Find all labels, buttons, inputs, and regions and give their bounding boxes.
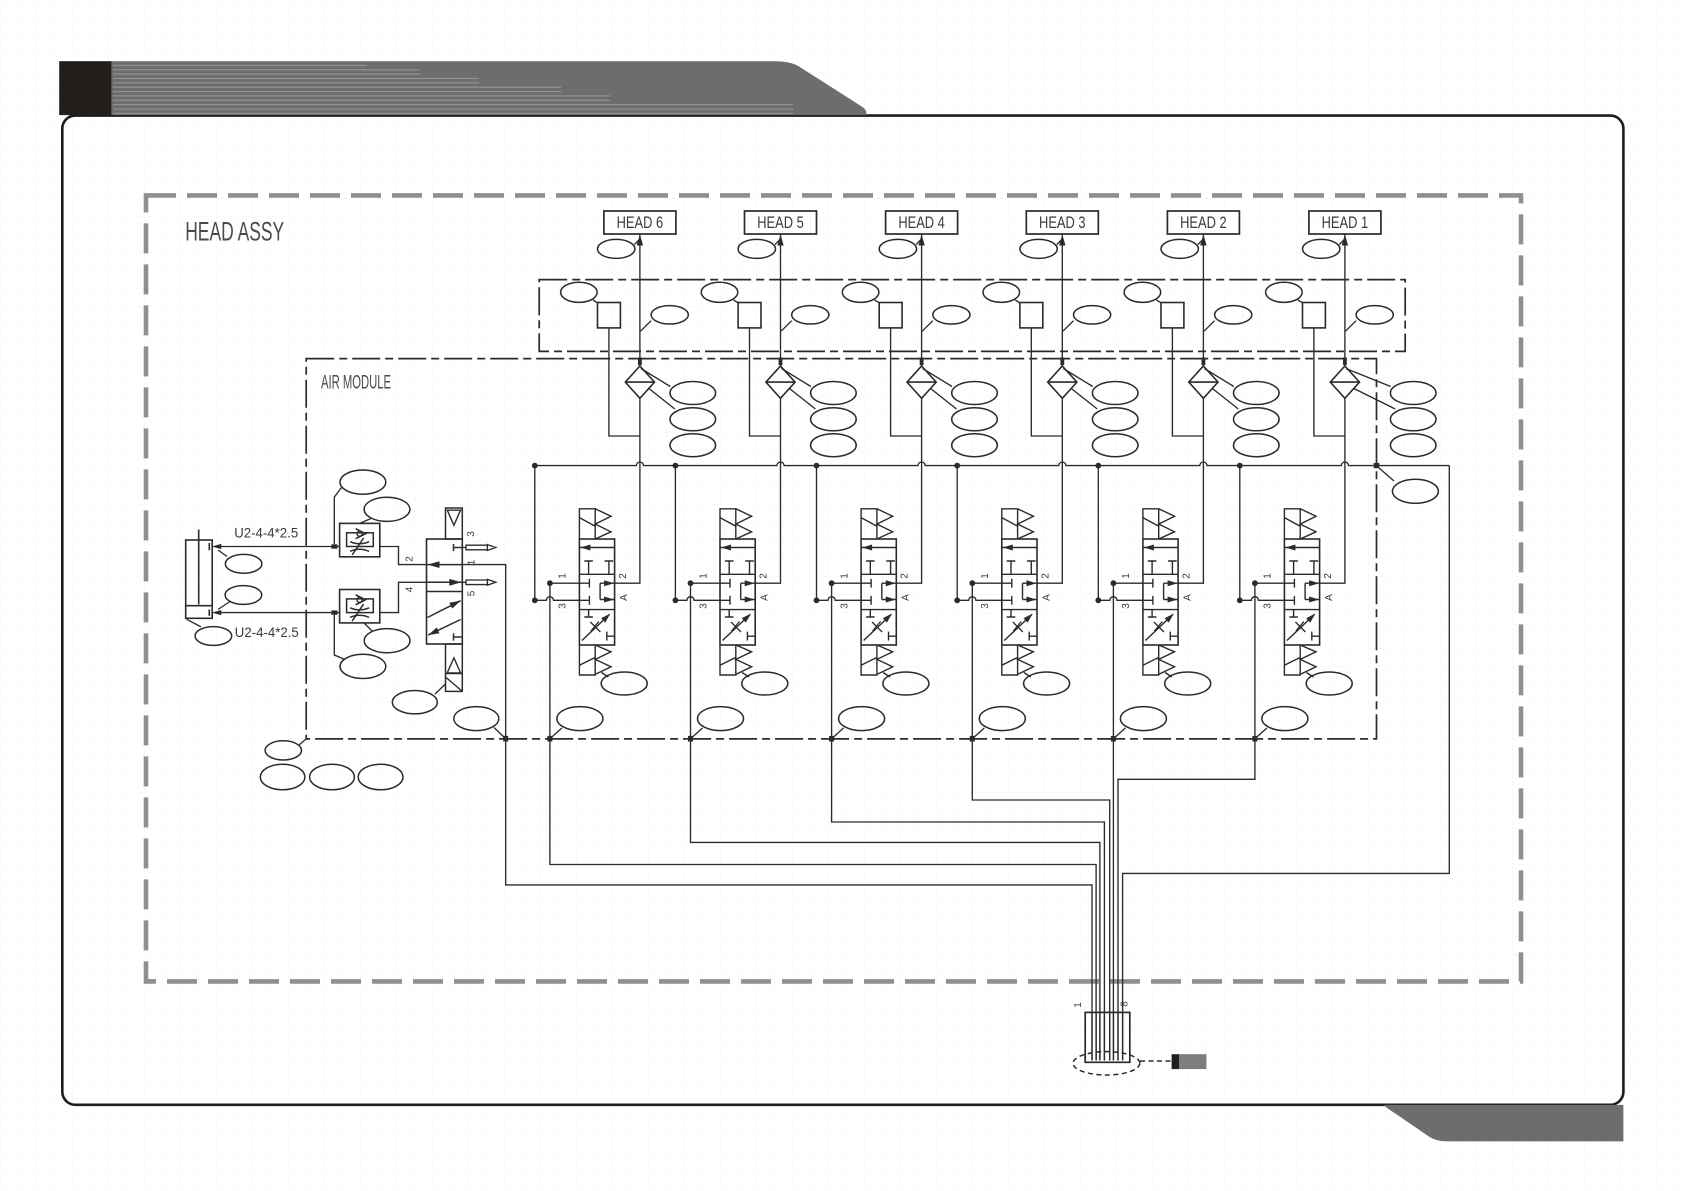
connector CN1 dashed outline ellipse <box>1073 1052 1140 1075</box>
leader V1 boundary crossing <box>1255 728 1267 739</box>
redacted ellipse stack 1a <box>1390 382 1436 405</box>
HEAD 2 box <box>1167 211 1239 234</box>
leader HEAD 1 line callout <box>1339 240 1344 245</box>
valve V1 cell1 flow line <box>1284 547 1319 549</box>
sensor S2 box <box>1161 303 1184 328</box>
redacted ellipse stack 5a <box>811 382 857 405</box>
valve V6 cell2 bracket <box>600 583 615 599</box>
callout ellipse (HEAD 2 line) <box>1161 239 1198 258</box>
valve V5 cell1 flow line <box>720 547 755 549</box>
check valve CV5 (diamond) <box>766 366 795 398</box>
valve MV crossover arrow a <box>449 601 460 609</box>
valve V2 cell3 throttle line <box>1145 615 1173 641</box>
boundary tick (V6 line at AIR MODULE top) <box>638 358 642 366</box>
wire: tube cylinder top port to flow control F1 <box>221 546 340 548</box>
leader V3 spring callout <box>1024 673 1031 678</box>
junction dot V4 port 1 <box>829 580 835 586</box>
sensor S5 box <box>738 303 761 328</box>
wire: sensor S3 to valve line <box>1031 328 1062 436</box>
junction dot V4 port 3 <box>814 597 820 603</box>
valve MV blocked port 3 (T) <box>454 544 463 551</box>
HEAD 4 box <box>886 211 958 234</box>
valve V2 cell1 blocked ports <box>1148 561 1177 574</box>
leader to cylinder top port <box>218 550 227 557</box>
svg-text:HEAD 4: HEAD 4 <box>898 213 945 232</box>
redacted ellipse stack 3b <box>1092 408 1138 431</box>
flow control valve F1 <box>340 523 380 556</box>
title banner stripes <box>113 65 793 114</box>
leader CV3 callout 1 <box>1063 369 1092 387</box>
AIR MODULE boundary (dash-dot box) <box>306 359 1376 739</box>
callout ellipse (sensor 4 right) <box>933 306 970 324</box>
valve V4 cell2 arrow a <box>886 580 896 586</box>
leader CV2 callout 2 <box>1212 389 1238 410</box>
callout ellipse (sensor 5 left) <box>701 282 738 302</box>
valve V1 cell2 arrow a <box>1309 580 1319 586</box>
flow control valve F2 <box>340 590 380 623</box>
svg-text:HEAD 2: HEAD 2 <box>1180 213 1227 232</box>
leader sensor 5 right <box>781 321 792 332</box>
valve MV cell divider <box>427 591 463 593</box>
wire: V4 port 1 rail to connector <box>832 583 1105 1060</box>
svg-text:1: 1 <box>1073 1002 1084 1008</box>
svg-text:3: 3 <box>1121 603 1132 609</box>
svg-text:3: 3 <box>980 603 991 609</box>
callout ellipse (flow control F2) <box>364 629 410 653</box>
valve MV exhaust pin port 3 <box>462 545 496 551</box>
valve V1 cell1 flow arrow <box>1285 545 1295 551</box>
wire: tube flow control F2 to valve MV port 4 <box>380 582 427 612</box>
svg-text:1: 1 <box>1121 573 1132 579</box>
valve V5 cell2 arrow b <box>745 597 755 603</box>
valve V3 cell3 throttle cross <box>1013 622 1023 633</box>
valve MV crossover arrow b <box>428 627 439 635</box>
junction dot manifold / head 4 port-3 rail <box>814 463 820 469</box>
valve V5 pilot box top <box>720 509 736 539</box>
valve V5 cell2 arrow a <box>745 580 755 586</box>
cylinder C1 port stub bottom <box>208 610 210 616</box>
arrow into cylinder top port <box>212 544 222 549</box>
wire: sensor S6 to valve line <box>609 328 640 436</box>
mating connector dark part <box>1172 1054 1180 1069</box>
leader MV supply crossing <box>494 728 506 739</box>
valve V2 cell3 throttle arrow <box>1165 614 1174 623</box>
valve MV pilot diagonal <box>446 677 463 691</box>
connector CN1 pins <box>1092 1012 1123 1060</box>
leader V5 spring callout <box>742 673 749 678</box>
valve MV exhaust pin port 5 <box>462 579 496 585</box>
leader HEAD 4 line callout <box>916 240 921 245</box>
valve V1 cell3 throttle arrow <box>1306 614 1315 623</box>
wire: V2 port 3 line <box>1098 597 1143 601</box>
redacted ellipse stack 1b <box>1390 408 1436 431</box>
valve V3 cell2 arrow b <box>1027 597 1037 603</box>
leader sensor 3 <box>1015 300 1020 303</box>
svg-text:3: 3 <box>839 603 850 609</box>
valve V4 pilot box bottom <box>861 645 877 675</box>
leader V6 spring callout <box>601 673 608 678</box>
callout ellipse (V3 boundary crossing) <box>979 707 1025 731</box>
redacted ellipse stack 5b <box>811 408 857 431</box>
redacted ellipse stack 2a <box>1234 382 1280 405</box>
arrow into HEAD 1 <box>1342 235 1348 246</box>
wire: V2 port 1 line <box>1113 582 1143 584</box>
valve V6 port 1 blocked (T) <box>579 579 589 588</box>
valve V5 cell3 throttle arrow <box>742 614 751 623</box>
callout ellipse (sensor 3 right) <box>1074 306 1111 324</box>
wire: supply line to connector pin 8 <box>1123 466 1450 1061</box>
valve V5 cell3 throttle line <box>723 615 751 641</box>
junction dot manifold / head 6 port-3 rail <box>532 463 538 469</box>
valve V1 spring bottom (zigzag) <box>1300 645 1316 674</box>
svg-text:U2-4-4*2.5: U2-4-4*2.5 <box>234 526 298 541</box>
arrow into HEAD 5 <box>777 235 783 246</box>
wire: manifold to V2 port 3 rail <box>1097 466 1099 601</box>
leader CV1 callout 1 <box>1346 369 1391 387</box>
valve MV flow arrow (to port 5) <box>449 579 461 586</box>
svg-text:HEAD 6: HEAD 6 <box>617 213 664 232</box>
svg-text:A: A <box>1324 594 1335 601</box>
valve V3 cell dividers <box>1002 574 1037 609</box>
valve V2 port 3 blocked (T) <box>1143 596 1153 605</box>
cylinder C1 port stub top <box>208 543 210 550</box>
boundary tick (V5 rail at AIR MODULE bottom) <box>688 736 693 742</box>
wire: tube flow control F1 to valve MV port 2 <box>380 547 427 565</box>
valve MV push-button actuator box <box>446 508 463 539</box>
callout ellipse (V4 boundary crossing) <box>839 707 885 731</box>
redacted ellipse stack 3a <box>1092 382 1138 405</box>
callout ellipse (HEAD 4 line) <box>879 239 916 258</box>
valve V1 cell2 bracket <box>1305 583 1320 599</box>
valve V4 cell1 flow arrow <box>862 545 872 551</box>
valve V2 cell1 flow line <box>1143 547 1178 549</box>
wire: V3 port 1 rail to connector <box>972 583 1109 1060</box>
svg-text:2: 2 <box>759 573 770 579</box>
valve V5 port 1 blocked (T) <box>720 579 730 588</box>
redacted ellipse stack 6a <box>670 382 716 405</box>
valve V6 spring bottom (zigzag) <box>595 645 611 674</box>
cylinder C1 body <box>186 540 213 618</box>
wire: valve V5 port 2 to HEAD 5 <box>755 234 780 583</box>
valve V4 cell3 throttle cross <box>872 622 882 633</box>
valve V6 body <box>579 539 614 645</box>
wire: sensor S5 to valve line <box>750 328 781 436</box>
valve V2 cell3 blocked ports <box>1148 610 1178 641</box>
wire: V4 port 3 line <box>817 597 862 601</box>
leader HEAD 2 line callout <box>1198 240 1203 245</box>
boundary tick (MV supply rail) <box>503 736 508 742</box>
valve V5 cell2 bracket <box>741 583 756 599</box>
valve V3 port 3 blocked (T) <box>1002 596 1012 605</box>
valve V1 port 1 blocked (T) <box>1284 579 1294 588</box>
valve V6 port 3 blocked (T) <box>579 596 589 605</box>
valve MV pilot box bottom <box>446 644 463 691</box>
leader manifold boundary crossing <box>1379 468 1394 481</box>
valve V5 port 3 blocked (T) <box>720 596 730 605</box>
wire: sensor S2 to valve line <box>1172 328 1203 436</box>
svg-text:1: 1 <box>558 573 569 579</box>
valve V3 cell1 flow arrow <box>1003 545 1013 551</box>
callout ellipse (MV supply crossing) <box>454 707 499 731</box>
arrow into HEAD 3 <box>1059 235 1065 246</box>
redacted ellipse row 2 <box>310 764 355 790</box>
valve V5 cell1 flow arrow <box>721 545 731 551</box>
svg-text:2: 2 <box>900 573 911 579</box>
valve V5 body <box>720 539 755 645</box>
boundary tick (V5 line at AIR MODULE top) <box>779 358 783 366</box>
svg-text:5: 5 <box>466 590 477 596</box>
mating connector gray part <box>1179 1054 1206 1069</box>
leader V1 spring callout <box>1306 673 1313 678</box>
valve V3 cell1 flow line <box>1002 547 1037 549</box>
junction dot V1 port 1 <box>1252 580 1258 586</box>
svg-text:2: 2 <box>1040 573 1051 579</box>
callout ellipse (manifold boundary crossing) <box>1392 479 1438 503</box>
valve V2 pilot box top <box>1143 509 1159 539</box>
leader F1 callout <box>360 518 372 523</box>
valve V4 cell1 blocked ports <box>866 561 895 574</box>
leader CV2 callout 1 <box>1204 369 1233 387</box>
wire: manifold to V5 port 3 rail <box>674 466 676 601</box>
callout ellipse (sensor 3 left) <box>983 282 1020 302</box>
wire: V5 port 1 rail to connector <box>691 583 1100 1060</box>
valve V4 cell3 blocked ports <box>866 610 896 641</box>
cylinder C1 piston rod <box>198 530 200 605</box>
valve V6 spring top (zigzag) <box>595 509 611 539</box>
wire: V2 port 1 rail to connector <box>1112 583 1114 1060</box>
page border frame <box>62 116 1623 1105</box>
check valve CV4 (diamond) <box>907 366 936 398</box>
junction dot V5 port 1 <box>688 580 694 586</box>
leader sensor 1 right <box>1346 321 1357 332</box>
leader sensor 6 right <box>641 321 652 332</box>
valve V3 cell2 bracket <box>1023 583 1038 599</box>
wire: V3 port 3 line <box>957 597 1002 601</box>
valve V4 cell3 throttle line <box>864 615 892 641</box>
junction square on tube 1 <box>331 544 337 548</box>
wire: manifold to V4 port 3 rail <box>816 466 818 601</box>
leader sensor 4 right <box>922 321 933 332</box>
callout ellipse (V6 boundary crossing) <box>557 707 603 731</box>
valve MV flow path 1-2 <box>427 564 463 566</box>
valve V1 cell3 throttle line <box>1287 615 1315 641</box>
arrow into cylinder bottom port <box>212 610 222 615</box>
valve V2 spring top (zigzag) <box>1159 509 1175 539</box>
wire: manifold to V3 port 3 rail <box>956 466 958 601</box>
valve V3 pilot box top <box>1002 509 1018 539</box>
sensor S6 box <box>598 303 621 328</box>
boundary tick (V3 rail at AIR MODULE bottom) <box>970 736 975 742</box>
valve V4 body <box>861 539 896 645</box>
redacted ellipse stack 3c <box>1092 434 1138 457</box>
sensor S3 box <box>1020 303 1043 328</box>
svg-text:A: A <box>901 594 912 601</box>
leader HEAD 6 line callout <box>634 240 639 245</box>
svg-text:A: A <box>1041 594 1052 601</box>
leader CV4 callout 1 <box>923 369 952 387</box>
wire: sensor S1 to valve line <box>1314 328 1345 436</box>
leader module corner <box>299 739 306 745</box>
valve V1 body <box>1284 539 1319 645</box>
redacted ellipse row 1 <box>260 764 305 790</box>
valve V3 cell3 throttle arrow <box>1024 614 1033 623</box>
boundary tick (V4 line at AIR MODULE top) <box>920 358 924 366</box>
valve V3 cell3 blocked ports <box>1007 610 1037 641</box>
check valve CV3 (diamond) <box>1048 366 1077 398</box>
valve V4 cell3 throttle arrow <box>883 614 892 623</box>
valve V4 pilot box top <box>861 509 877 539</box>
leader to cylinder body <box>187 619 201 627</box>
leader sensor 4 <box>875 300 880 303</box>
callout ellipse (sensor 5 right) <box>792 306 829 324</box>
valve MV flow path 4-5 <box>427 581 463 583</box>
svg-text:2: 2 <box>1323 573 1334 579</box>
boundary tick (V4 rail at AIR MODULE bottom) <box>829 736 834 742</box>
junction dot manifold / head 3 port-3 rail <box>954 463 960 469</box>
redacted ellipse stack 4a <box>952 382 998 405</box>
valve V4 cell1 flow line <box>861 547 896 549</box>
valve V6 pilot box top <box>579 509 595 539</box>
leader sensor 1 <box>1298 300 1303 303</box>
valve V1 port 3 blocked (T) <box>1284 596 1294 605</box>
valve V4 spring top (zigzag) <box>877 509 893 539</box>
svg-text:3: 3 <box>466 531 477 537</box>
svg-text:HEAD 1: HEAD 1 <box>1322 213 1369 232</box>
svg-text:8: 8 <box>1120 1001 1131 1007</box>
wire: sensor S4 to valve line <box>891 328 922 436</box>
svg-text:1: 1 <box>980 573 991 579</box>
callout ellipse (HEAD 5 line) <box>738 239 775 258</box>
valve V3 port 1 blocked (T) <box>1002 579 1012 588</box>
valve V6 cell3 blocked ports <box>584 610 614 641</box>
wire: valve V6 port 2 to HEAD 6 <box>615 234 640 583</box>
redacted ellipse row 3 <box>358 764 403 790</box>
valve V3 cell3 throttle line <box>1004 615 1032 641</box>
valve V1 pilot box top <box>1284 509 1300 539</box>
valve V3 pilot box bottom <box>1002 645 1018 675</box>
valve V2 cell3 throttle cross <box>1154 622 1164 633</box>
callout ellipse (HEAD 1 line) <box>1303 239 1340 258</box>
callout ellipse (tube 2) <box>340 654 386 678</box>
valve V5 cell3 throttle cross <box>731 622 741 633</box>
valve V5 cell3 blocked ports <box>725 610 755 641</box>
leader CV6 callout 2 <box>649 389 675 410</box>
valve MV blocked port (T) lower <box>454 633 463 640</box>
check valve CV2 (diamond) <box>1189 366 1218 398</box>
junction dot V2 port 3 <box>1095 597 1101 603</box>
leader V4 spring callout <box>883 673 890 678</box>
leader sensor 6 <box>593 300 598 303</box>
wire: V1 port 1 line <box>1255 582 1285 584</box>
valve V1 cell1 blocked ports <box>1289 561 1318 574</box>
wire: valve V4 port 2 to HEAD 4 <box>896 234 921 583</box>
connector CN1 box <box>1085 1012 1130 1062</box>
callout ellipse (sensor 2 left) <box>1124 282 1161 302</box>
wire: V5 port 3 line <box>675 597 720 601</box>
svg-text:3: 3 <box>698 603 709 609</box>
valve MV flow arrow (to port 2) <box>428 561 440 568</box>
valve V3 spring top (zigzag) <box>1018 509 1034 539</box>
valve V1 spring top (zigzag) <box>1300 509 1316 539</box>
valve V6 pilot box bottom <box>579 645 595 675</box>
callout ellipse (module corner) <box>265 741 301 760</box>
leader CV4 callout 2 <box>931 389 957 410</box>
junction dot manifold / head 5 port-3 rail <box>673 463 679 469</box>
wire: valve V1 port 2 to HEAD 1 <box>1320 234 1345 583</box>
leader CV5 callout 1 <box>782 369 811 387</box>
valve MV push-button triangle <box>447 510 460 525</box>
leader tube 1 callout <box>334 488 341 545</box>
junction dot V5 port 3 <box>673 597 679 603</box>
boundary tick (V3 line at AIR MODULE top) <box>1060 358 1064 366</box>
callout ellipse (V1 spring) <box>1306 672 1352 695</box>
valve V3 cell2 arrow a <box>1027 580 1037 586</box>
arrow into HEAD 4 <box>918 235 924 246</box>
valve V2 body <box>1143 539 1178 645</box>
valve V2 port 1 blocked (T) <box>1143 579 1153 588</box>
valve V1 cell3 throttle cross <box>1295 622 1305 633</box>
leader HEAD 3 line callout <box>1057 240 1062 245</box>
redacted ellipse stack 2b <box>1234 408 1280 431</box>
wire: manifold to V1 port 3 rail <box>1239 466 1241 601</box>
HEAD 6 box <box>604 211 676 234</box>
valve V2 spring bottom (zigzag) <box>1159 645 1175 674</box>
valve V2 cell2 arrow a <box>1168 580 1178 586</box>
HEAD 3 box <box>1026 211 1098 234</box>
callout ellipse (sensor 6 right) <box>651 306 688 324</box>
valve V6 cell2 arrow a <box>604 580 614 586</box>
redacted ellipse stack 4c <box>952 434 998 457</box>
boundary tick (V2 rail at AIR MODULE bottom) <box>1111 736 1116 742</box>
valve V5 pilot box bottom <box>720 645 736 675</box>
svg-text:2: 2 <box>405 556 416 562</box>
wire: V1 port 3 line <box>1240 597 1285 601</box>
callout ellipse (V4 spring) <box>883 672 929 695</box>
valve V5 spring top (zigzag) <box>736 509 752 539</box>
boundary tick (V2 line at AIR MODULE top) <box>1202 358 1206 366</box>
wire: V5 port 1 line <box>691 582 721 584</box>
wire: V6 port 1 rail to connector <box>550 583 1096 1060</box>
check valve CV1 (diamond) <box>1330 366 1359 398</box>
svg-text:4: 4 <box>405 586 416 592</box>
cylinder C1 piston plate <box>186 605 213 607</box>
leader sensor 5 <box>734 300 739 303</box>
boundary tick (V6 rail at AIR MODULE bottom) <box>547 736 552 742</box>
callout ellipse (V2 boundary crossing) <box>1120 707 1166 731</box>
callout ellipse (sensor 1 left) <box>1266 282 1303 302</box>
junction dot V2 port 1 <box>1111 580 1117 586</box>
redacted ellipse stack 4b <box>952 408 998 431</box>
valve V6 cell3 throttle line <box>582 615 610 641</box>
boundary tick (V1 rail at AIR MODULE bottom) <box>1252 736 1257 742</box>
valve V5 spring bottom (zigzag) <box>736 645 752 674</box>
leader HEAD 5 line callout <box>775 240 780 245</box>
redacted ellipse stack 2c <box>1234 434 1280 457</box>
svg-text:A: A <box>619 594 630 601</box>
valve V2 cell2 arrow b <box>1168 597 1178 603</box>
callout ellipse (cylinder top port) <box>225 554 262 573</box>
callout ellipse (V2 spring) <box>1165 672 1211 695</box>
boundary tick (manifold at AIR MODULE edge) <box>1374 463 1380 468</box>
leader CV5 callout 2 <box>790 389 816 410</box>
arrow into HEAD 6 <box>637 235 643 246</box>
junction dot V1 port 3 <box>1237 597 1243 603</box>
valve V6 cell1 flow arrow <box>580 545 590 551</box>
valve V6 cell3 throttle arrow <box>601 614 610 623</box>
callout ellipse (V5 spring) <box>742 672 788 695</box>
wire: V1 port 1 rail to connector <box>1118 583 1255 1060</box>
wire: MV port 1 supply rail to connector pin 1 <box>462 565 1092 1061</box>
